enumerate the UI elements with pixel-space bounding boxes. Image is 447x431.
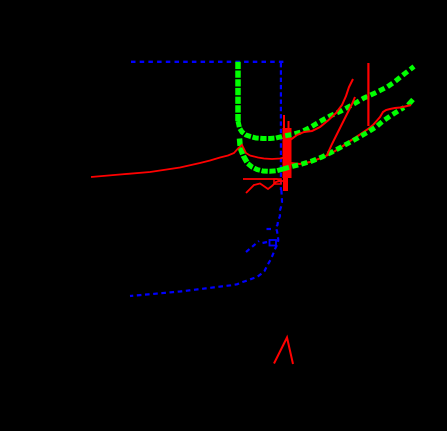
red zigzag R6 below cluster: [246, 181, 284, 193]
red horizontal line R7 below cluster: [243, 179, 281, 182]
blue dashed data curve (knee bending to lower-left tail): [130, 190, 282, 296]
green curve G1 upper bathtub: vertical part: [235, 62, 241, 121]
red curve R4 lower part (weaving along lower green, drawn under dashes): [291, 125, 373, 164]
red caret (lambda) at bottom: [274, 338, 293, 365]
green curve G2 lower bathtub: rising branch: [283, 108, 404, 170]
green curve G1 upper bathtub: corner and flat bottom: [238, 121, 276, 139]
red small loop in zigzag: [274, 179, 281, 184]
blue noise dash: [267, 228, 272, 230]
green curve G2 lower bathtub: corner and flat bottom: [248, 164, 283, 172]
red steep segment S3 between green curves: [327, 97, 355, 155]
blue dashed vertical marker line x=281: [280, 63, 282, 190]
red curve R2 (rising from cluster, sweeping up to peak x=353,y=79): [291, 79, 353, 140]
blue noise loop: [270, 240, 277, 246]
red blob right prong: [288, 121, 290, 135]
green curve G1 upper bathtub: rising branch: [276, 67, 414, 139]
red blob lower narrow part: [283, 176, 288, 191]
red blob cluster main bar at x=287: [283, 128, 292, 178]
red tall vertical spike R3: [367, 63, 369, 126]
blue noise dash segment near knee: [246, 241, 259, 252]
red curve R1 (long left tail into cluster): [91, 145, 289, 177]
red blob left prong: [283, 115, 285, 135]
red curve R4 end hook (rises above lower green, plateau, ends at green tip): [373, 105, 411, 125]
green G2 final tilted dash: [408, 100, 413, 106]
blue dashed horizontal marker line y=63: [131, 61, 287, 63]
blue noise dash: [263, 242, 268, 243]
green curve G2 lower bathtub: descending part: [240, 139, 248, 164]
